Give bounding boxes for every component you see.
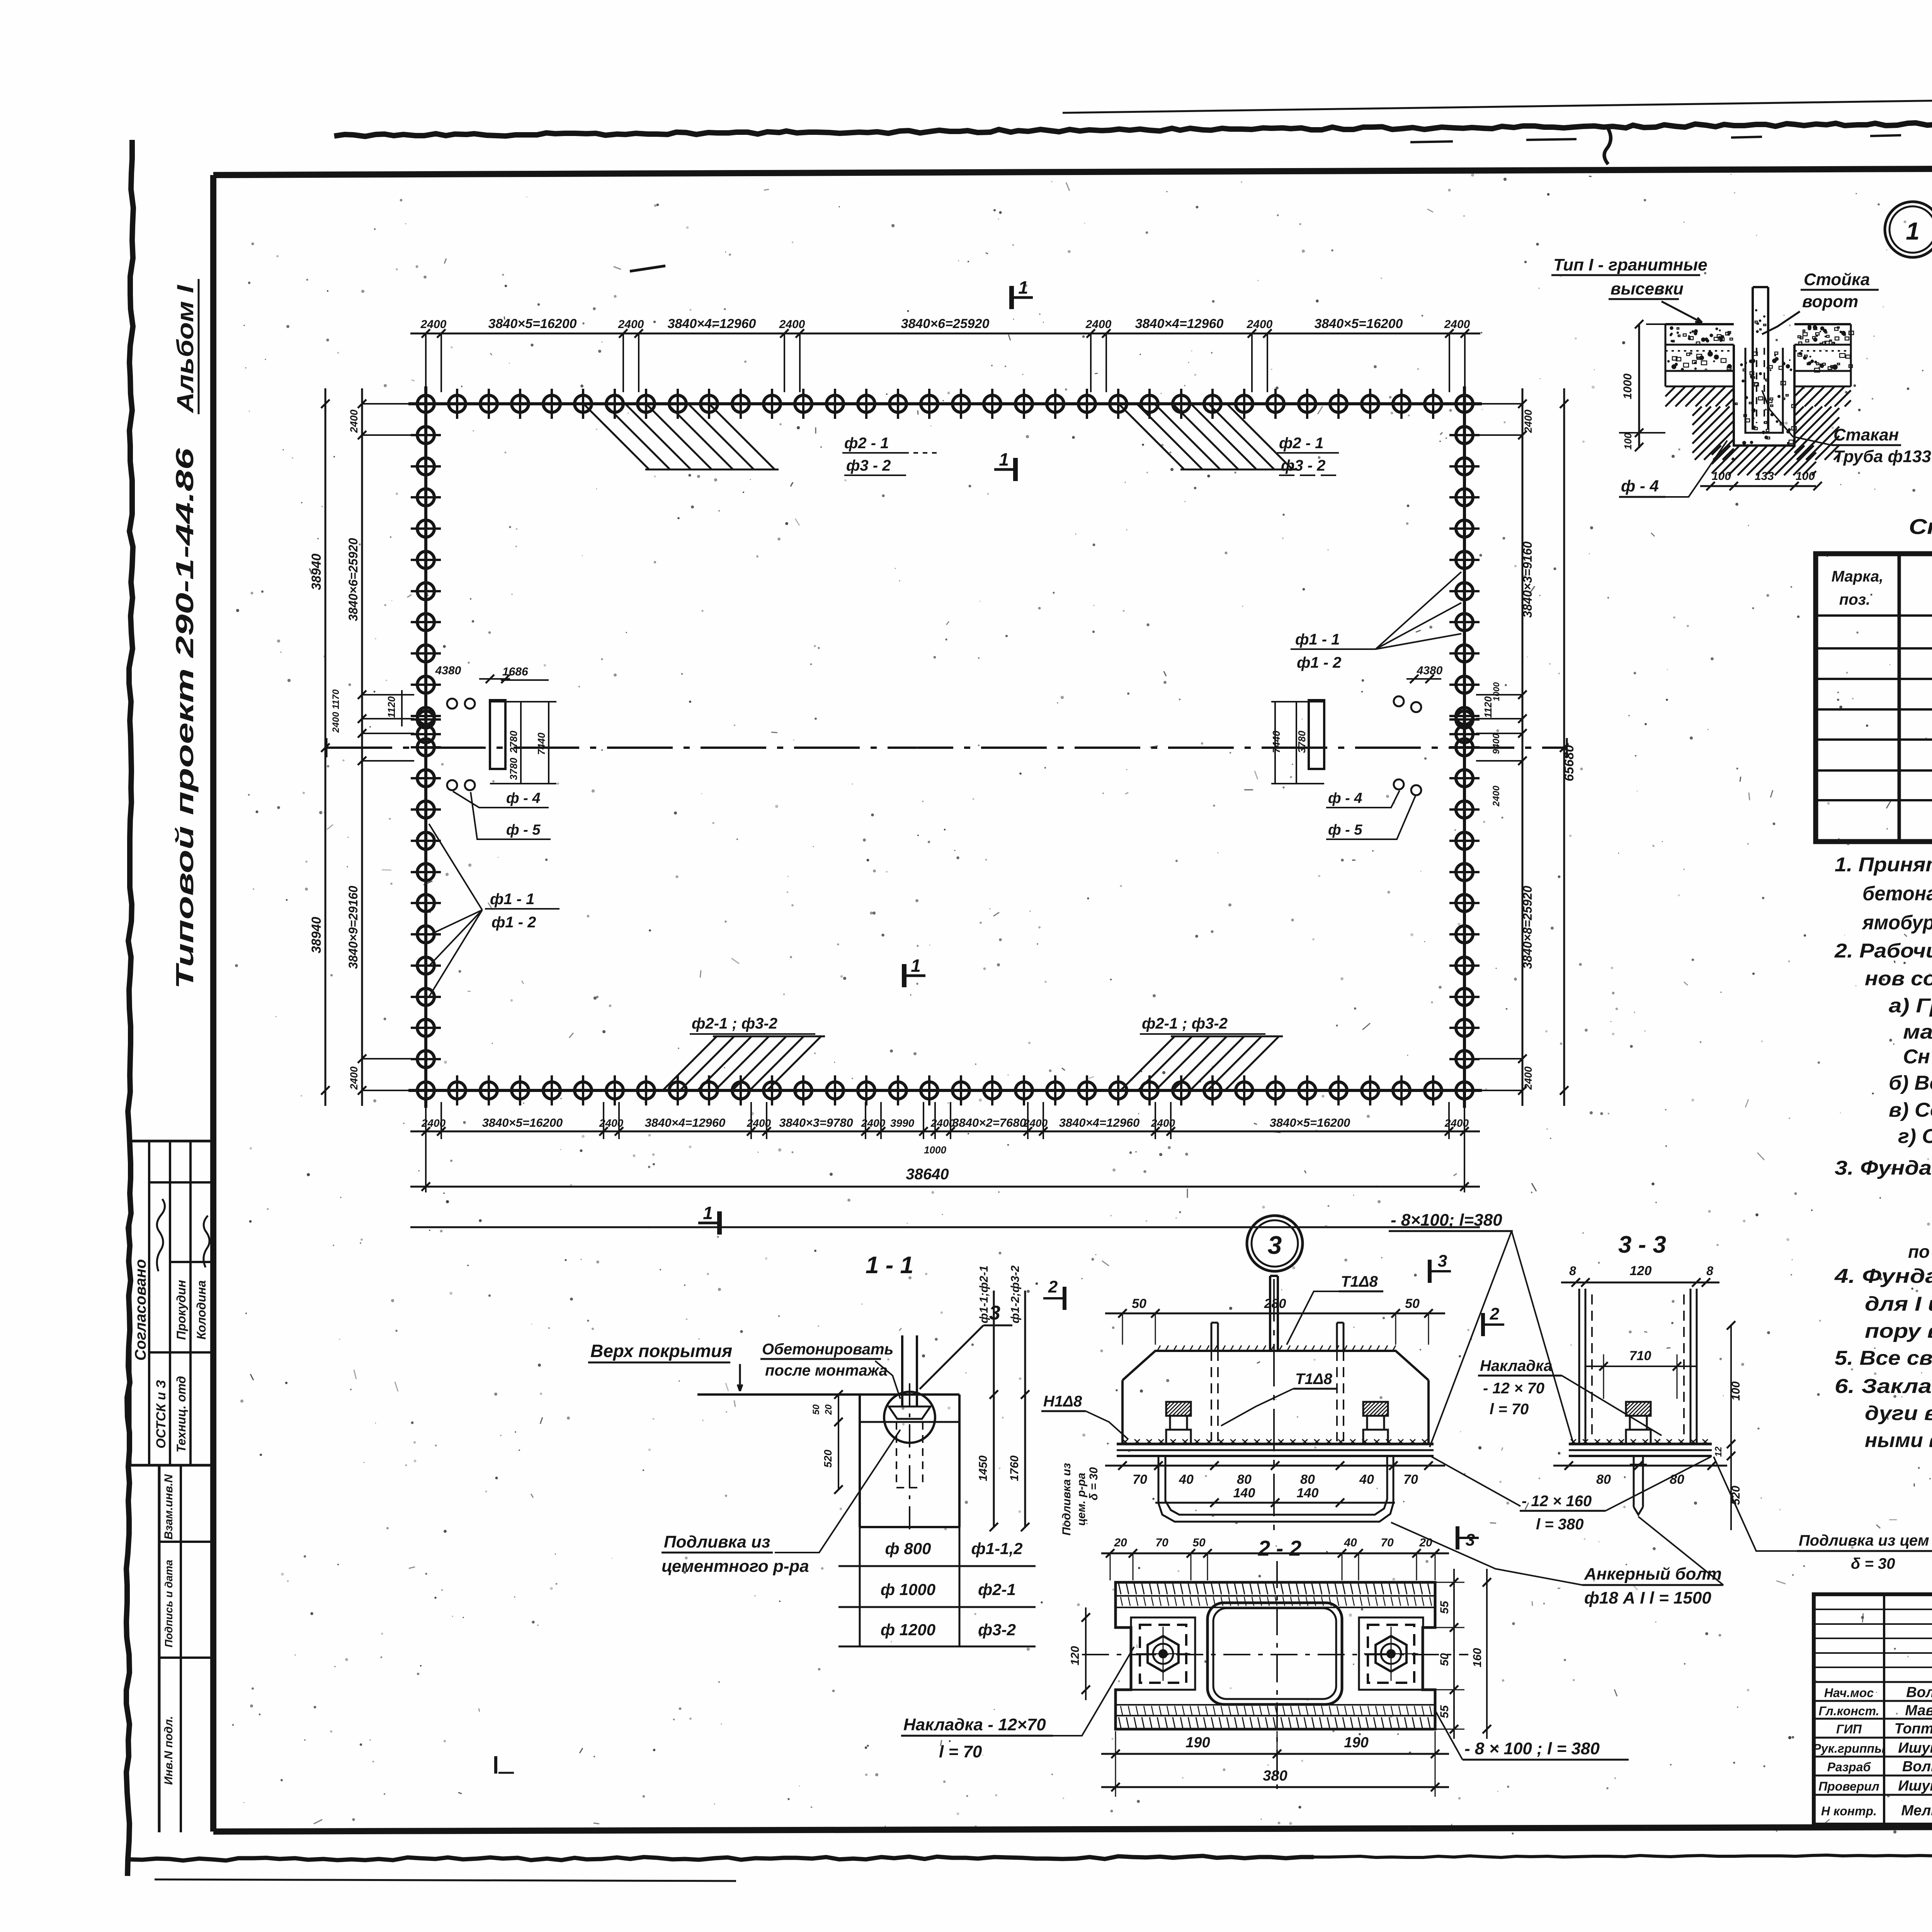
svg-text:2400: 2400 [1085, 318, 1112, 331]
svg-text:3840×4=12960: 3840×4=12960 [1059, 1116, 1140, 1129]
svg-text:ф - 4: ф - 4 [506, 790, 541, 806]
svg-text:1: 1 [1906, 217, 1920, 245]
svg-text:- 12 × 70: - 12 × 70 [1483, 1380, 1544, 1397]
svg-text:Проверил: Проверил [1818, 1779, 1879, 1793]
svg-text:3 - 3: 3 - 3 [1618, 1231, 1666, 1258]
svg-text:100: 100 [1796, 470, 1815, 483]
svg-text:4380: 4380 [435, 664, 461, 677]
svg-text:1000: 1000 [924, 1144, 946, 1156]
svg-text:1: 1 [999, 449, 1009, 469]
svg-text:Рук.гриппы: Рук.гриппы [1813, 1742, 1885, 1755]
svg-text:38640: 38640 [906, 1166, 949, 1183]
svg-text:ф2-1 ; ф3-2: ф2-1 ; ф3-2 [692, 1015, 777, 1032]
svg-text:высевки: высевки [1611, 279, 1684, 298]
svg-text:55: 55 [1438, 1705, 1451, 1718]
svg-text:ф - 5: ф - 5 [506, 822, 541, 838]
svg-text:3: 3 [1438, 1252, 1447, 1270]
svg-text:38940: 38940 [309, 917, 324, 954]
svg-text:3840×4=12960: 3840×4=12960 [1135, 316, 1224, 331]
svg-text:Стакан: Стакан [1833, 425, 1899, 444]
svg-text:цем. р-ра: цем. р-ра [1075, 1473, 1088, 1526]
svg-text:3840×9=29160: 3840×9=29160 [346, 886, 360, 969]
svg-text:г) Отсутствие вечной мерзлот: г) Отсутствие вечной мерзлоты. [1898, 1125, 1932, 1148]
svg-text:l = 380: l = 380 [1536, 1516, 1583, 1533]
svg-text:2: 2 [1048, 1277, 1058, 1296]
svg-text:2400: 2400 [1444, 1117, 1469, 1129]
svg-text:Т1Δ8: Т1Δ8 [1341, 1273, 1378, 1290]
svg-text:Техниц. отд: Техниц. отд [174, 1376, 188, 1452]
svg-text:190: 190 [1344, 1735, 1368, 1751]
svg-text:δ = 30: δ = 30 [1851, 1555, 1895, 1572]
svg-text:Стойка: Стойка [1804, 270, 1870, 289]
svg-text:Разраб: Разраб [1827, 1760, 1871, 1774]
svg-text:ф 800: ф 800 [885, 1539, 931, 1558]
svg-text:l = 70: l = 70 [1490, 1401, 1529, 1418]
svg-text:Гл.конст.: Гл.конст. [1818, 1704, 1879, 1718]
svg-text:Прокудин: Прокудин [174, 1280, 188, 1340]
svg-text:2400: 2400 [930, 1117, 955, 1129]
svg-text:1: 1 [911, 956, 921, 976]
svg-text:3: 3 [1268, 1231, 1282, 1259]
svg-text:δ = 30: δ = 30 [1087, 1467, 1100, 1500]
svg-text:бетона М 100. Скважины для: бетона М 100. Скважины для фундаментов в… [1862, 883, 1932, 905]
svg-text:3840×4=12960: 3840×4=12960 [668, 316, 756, 331]
svg-text:133: 133 [1755, 470, 1774, 483]
svg-text:ф3 - 2: ф3 - 2 [846, 457, 891, 474]
svg-text:3840×8=25920: 3840×8=25920 [1520, 886, 1534, 969]
svg-text:ф2-1: ф2-1 [978, 1580, 1016, 1599]
svg-text:1120: 1120 [386, 696, 397, 718]
svg-text:- 8×100; l=380: - 8×100; l=380 [1391, 1211, 1502, 1230]
svg-text:ф1-2;ф3-2: ф1-2;ф3-2 [1009, 1265, 1022, 1323]
svg-text:в) Сейсмичность не выше 6 б: в) Сейсмичность не выше 6 баллов, [1889, 1099, 1932, 1121]
svg-text:Ишуткин: Ишуткин [1898, 1740, 1932, 1756]
svg-text:520: 520 [822, 1449, 834, 1468]
svg-text:40: 40 [1179, 1472, 1194, 1487]
svg-text:55: 55 [1438, 1600, 1451, 1614]
svg-text:Колодина: Колодина [194, 1280, 208, 1339]
svg-text:3. Фундаменты замаркированы: 3. Фундаменты замаркированы следующим об… [1835, 1157, 1932, 1179]
svg-text:Мельцес: Мельцес [1901, 1803, 1932, 1819]
svg-text:1. Принятые фундаменты монол: 1. Принятые фундаменты монолитные, набив… [1835, 854, 1932, 876]
svg-text:ф3-2: ф3-2 [978, 1621, 1016, 1639]
svg-text:- 8 × 100 ; l = 380: - 8 × 100 ; l = 380 [1464, 1739, 1600, 1758]
svg-text:Ишуткин: Ишуткин [1898, 1778, 1932, 1794]
svg-text:б) Ветровая нагрузка для I: б) Ветровая нагрузка для I ÷ IV районов … [1889, 1072, 1932, 1094]
svg-text:40: 40 [1359, 1472, 1374, 1487]
svg-text:1: 1 [1018, 277, 1028, 298]
svg-text:8: 8 [1706, 1264, 1713, 1278]
svg-text:1000: 1000 [1492, 682, 1501, 701]
svg-text:140: 140 [1297, 1486, 1319, 1500]
svg-text:2 - 2: 2 - 2 [1258, 1536, 1301, 1560]
svg-text:Спецификация материалов на: Спецификация материалов на фундаменты [1909, 514, 1932, 539]
svg-text:80: 80 [1237, 1472, 1252, 1487]
svg-text:100: 100 [1730, 1381, 1742, 1401]
svg-text:3: 3 [1466, 1531, 1475, 1549]
svg-text:Обетонировать: Обетонировать [762, 1341, 893, 1358]
svg-text:нов со следующими природным: нов со следующими природными условиями: [1865, 968, 1932, 990]
svg-text:3840×6=25920: 3840×6=25920 [346, 538, 360, 621]
svg-text:ф - 5: ф - 5 [1328, 822, 1362, 838]
svg-text:2400: 2400 [1023, 1117, 1048, 1129]
svg-text:Согласовано: Согласовано [132, 1259, 149, 1361]
svg-text:3840×3=9160: 3840×3=9160 [1520, 541, 1534, 618]
svg-text:20: 20 [1419, 1536, 1432, 1549]
svg-text:70: 70 [1381, 1536, 1394, 1549]
svg-text:80: 80 [1596, 1472, 1611, 1487]
svg-text:20: 20 [823, 1404, 834, 1415]
svg-text:ф1 - 2: ф1 - 2 [492, 914, 536, 931]
svg-text:Н контр.: Н контр. [1821, 1804, 1877, 1818]
svg-text:Накладка: Накладка [1480, 1357, 1552, 1374]
svg-text:120: 120 [1069, 1646, 1082, 1665]
svg-text:120: 120 [1630, 1264, 1652, 1278]
svg-text:Волкова: Волкова [1902, 1759, 1932, 1775]
svg-text:ф2-1 ; ф3-2: ф2-1 ; ф3-2 [1142, 1015, 1228, 1032]
svg-text:3990: 3990 [890, 1117, 915, 1129]
svg-text:50: 50 [1132, 1296, 1146, 1311]
svg-text:3840×5=16200: 3840×5=16200 [1315, 316, 1403, 331]
svg-text:l = 70: l = 70 [939, 1742, 982, 1761]
svg-text:2400: 2400 [1522, 1066, 1534, 1090]
svg-text:Подливка из цем р-ра: Подливка из цем р-ра [1799, 1532, 1932, 1549]
svg-text:Инв.N подл.: Инв.N подл. [162, 1716, 175, 1785]
svg-text:ф1-1;ф2-1: ф1-1;ф2-1 [978, 1265, 990, 1323]
svg-text:ф2 - 1: ф2 - 1 [1279, 435, 1323, 452]
svg-text:2400: 2400 [421, 1117, 446, 1129]
svg-text:100: 100 [1712, 470, 1731, 483]
svg-text:мативными характеристиками γ: мативными характеристиками γ = 1,8 тс/м³… [1903, 1021, 1932, 1043]
svg-text:Взам.инв.N: Взам.инв.N [162, 1474, 175, 1539]
svg-text:Волков: Волков [1906, 1684, 1932, 1701]
svg-text:3780: 3780 [508, 758, 519, 780]
svg-text:ф2 - 1: ф2 - 1 [844, 435, 889, 452]
svg-text:ямобурам с диаметром сверла: ямобурам с диаметром сверла 800, 1000, 1… [1861, 912, 1932, 934]
svg-text:ф18 А I l = 1500: ф18 А I l = 1500 [1584, 1588, 1711, 1607]
svg-text:Марка,: Марка, [1832, 568, 1884, 585]
svg-text:Накладка - 12×70: Накладка - 12×70 [903, 1715, 1046, 1734]
svg-text:1: 1 [703, 1203, 713, 1223]
svg-text:Сн = 0,02 кгс/см² , Е = 150 к: Сн = 0,02 кгс/см² , Е = 150 кгс/см². [1903, 1046, 1932, 1068]
svg-text:ф1-1,2: ф1-1,2 [971, 1539, 1023, 1558]
svg-text:ОСТСК и З: ОСТСК и З [154, 1380, 168, 1449]
svg-text:дуги ворот поставляются в: дуги ворот поставляются в комплекте с фу… [1865, 1402, 1932, 1425]
svg-text:1686: 1686 [502, 665, 528, 678]
svg-text:Верх покрытия: Верх покрытия [590, 1341, 732, 1361]
svg-text:3840×4=12960: 3840×4=12960 [645, 1116, 726, 1129]
svg-text:80: 80 [1300, 1472, 1315, 1487]
svg-text:50: 50 [811, 1404, 821, 1415]
svg-text:ф 1200: ф 1200 [881, 1621, 935, 1639]
svg-text:2400: 2400 [779, 318, 805, 331]
svg-text:280: 280 [1264, 1296, 1286, 1311]
svg-text:4. Фундаменты марок Ф1-1 и: 4. Фундаменты марок Ф1-1 и Ф2-1 запроект… [1834, 1265, 1932, 1287]
svg-text:7440: 7440 [536, 733, 547, 755]
svg-text:1760: 1760 [1008, 1455, 1021, 1481]
svg-text:ф1 - 2: ф1 - 2 [1297, 654, 1341, 671]
svg-text:190: 190 [1185, 1735, 1210, 1751]
svg-text:20: 20 [1114, 1536, 1127, 1549]
svg-text:1000: 1000 [1621, 373, 1634, 399]
svg-text:2400: 2400 [348, 410, 360, 433]
svg-text:5. Все сварные швы по ГОСТ: 5. Все сварные швы по ГОСТ 21.107-78. [1835, 1347, 1932, 1369]
svg-text:Типовой проект 290-1-44.86: Типовой проект 290-1-44.86 [171, 448, 199, 989]
svg-text:Нач.мос: Нач.мос [1824, 1686, 1874, 1700]
svg-text:40: 40 [1344, 1536, 1357, 1549]
svg-text:160: 160 [1471, 1648, 1484, 1667]
svg-text:380: 380 [1263, 1768, 1287, 1784]
svg-text:2400: 2400 [1151, 1117, 1175, 1129]
svg-text:65680: 65680 [1562, 745, 1577, 782]
svg-text:100: 100 [1622, 433, 1634, 450]
svg-text:2400: 2400 [599, 1117, 624, 1129]
svg-text:70: 70 [1155, 1536, 1168, 1549]
svg-text:Т1Δ8: Т1Δ8 [1295, 1371, 1333, 1388]
svg-text:12: 12 [1713, 1446, 1724, 1457]
svg-text:для I и II климатических р: для I и II климатических районов по скор… [1865, 1293, 1932, 1315]
svg-text:3840×5=16200: 3840×5=16200 [488, 316, 577, 331]
svg-text:3840×2=7680: 3840×2=7680 [952, 1116, 1026, 1129]
svg-text:- 12 × 160: - 12 × 160 [1522, 1493, 1592, 1510]
svg-text:2400: 2400 [348, 1066, 360, 1090]
svg-text:140: 140 [1233, 1486, 1255, 1500]
svg-text:1450: 1450 [977, 1455, 990, 1481]
svg-text:ф1 - 1: ф1 - 1 [490, 891, 534, 908]
svg-text:4380: 4380 [1417, 664, 1443, 677]
svg-text:пору ветра , Ф1-2 , Ф3-2 для: пору ветра , Ф1-2 , Ф3-2 для III и IV ве… [1865, 1320, 1932, 1342]
svg-text:Подливка из: Подливка из [664, 1532, 770, 1551]
svg-text:ными воротами.: ными воротами. [1865, 1429, 1932, 1452]
svg-text:70: 70 [1403, 1472, 1418, 1487]
svg-text:50: 50 [1192, 1536, 1206, 1549]
svg-text:ворот: ворот [1802, 292, 1858, 311]
svg-text:2400: 2400 [1491, 786, 1502, 807]
svg-text:Н1Δ8: Н1Δ8 [1043, 1393, 1082, 1410]
svg-text:Подпись и дата: Подпись и дата [163, 1560, 175, 1648]
svg-text:ф1 - 1: ф1 - 1 [1295, 631, 1340, 648]
svg-text:7440: 7440 [1270, 731, 1282, 753]
svg-text:2. Рабочие чертежи фундамент: 2. Рабочие чертежи фундаментов разработа… [1834, 940, 1932, 962]
svg-text:2400: 2400 [747, 1117, 771, 1129]
svg-text:Альбом I: Альбом I [172, 284, 198, 413]
svg-text:2400: 2400 [861, 1117, 886, 1129]
svg-text:2400: 2400 [1522, 410, 1534, 433]
svg-text:Топтыгин: Топтыгин [1895, 1721, 1932, 1737]
svg-text:ГИП: ГИП [1836, 1722, 1862, 1736]
svg-text:2400: 2400 [618, 318, 644, 331]
svg-text:9400: 9400 [1491, 733, 1502, 754]
svg-text:ф 1000: ф 1000 [881, 1580, 935, 1599]
svg-text:после монтажа: после монтажа [765, 1362, 888, 1379]
svg-text:6. Закладные детали-стаканы: 6. Закладные детали-стаканы под стойки и… [1835, 1375, 1932, 1398]
svg-text:3840×5=16200: 3840×5=16200 [482, 1116, 563, 1129]
svg-text:2: 2 [1490, 1304, 1500, 1323]
svg-text:ф - 4: ф - 4 [1328, 790, 1362, 806]
svg-text:710: 710 [1629, 1349, 1651, 1363]
svg-text:3780: 3780 [1296, 731, 1308, 753]
svg-text:2400: 2400 [1247, 318, 1273, 331]
svg-text:2400 1170: 2400 1170 [331, 689, 341, 733]
svg-text:50: 50 [1438, 1653, 1451, 1666]
svg-text:Маврин: Маврин [1905, 1702, 1932, 1719]
svg-text:8: 8 [1569, 1264, 1576, 1278]
svg-text:поз.: поз. [1839, 591, 1870, 608]
svg-text:по диаметру: по диаметру [1908, 1242, 1932, 1262]
svg-text:3840×6=25920: 3840×6=25920 [901, 316, 990, 331]
svg-text:2400: 2400 [1444, 318, 1470, 331]
svg-text:ф - 4: ф - 4 [1621, 477, 1659, 495]
svg-text:3840×3=9780: 3840×3=9780 [779, 1116, 853, 1129]
svg-text:2780: 2780 [508, 731, 519, 753]
svg-text:1 - 1: 1 - 1 [866, 1252, 913, 1279]
svg-text:Труба ф133×4: Труба ф133×4 [1833, 447, 1932, 466]
svg-text:Подливка из: Подливка из [1060, 1463, 1073, 1536]
svg-text:2400: 2400 [420, 318, 447, 331]
svg-text:50: 50 [1405, 1296, 1420, 1311]
svg-text:Тип I - гранитные: Тип I - гранитные [1553, 255, 1708, 274]
svg-text:3840×5=16200: 3840×5=16200 [1270, 1116, 1350, 1129]
svg-text:ф3 - 2: ф3 - 2 [1281, 457, 1325, 474]
svg-text:а) Грунты сухие, непучинистые: а) Грунты сухие, непучинистые, непросадо… [1889, 995, 1932, 1017]
svg-text:70: 70 [1133, 1472, 1147, 1487]
